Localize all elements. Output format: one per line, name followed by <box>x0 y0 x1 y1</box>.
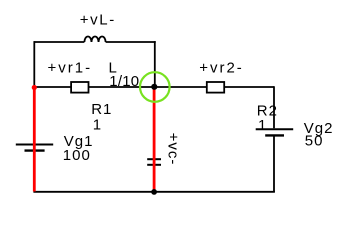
svg-text:100: 100 <box>63 147 91 164</box>
svg-text:50: 50 <box>305 133 324 150</box>
svg-text:+vL-: +vL- <box>80 12 116 29</box>
svg-text:+vr2-: +vr2- <box>199 59 244 76</box>
svg-text:+vc-: +vc- <box>165 133 182 166</box>
svg-text:+vr1-: +vr1- <box>48 59 93 76</box>
svg-text:1: 1 <box>93 116 102 133</box>
svg-text:1: 1 <box>258 117 267 134</box>
svg-text:1/10: 1/10 <box>109 73 139 90</box>
